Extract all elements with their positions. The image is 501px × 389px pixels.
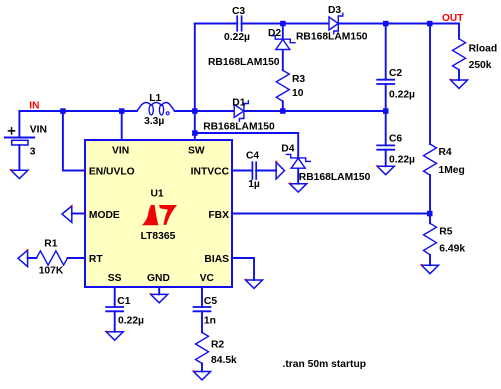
ground at BIAS bbox=[245, 279, 263, 289]
svg-text:.tran 50m startup: .tran 50m startup bbox=[283, 359, 367, 370]
junction node D2 top bbox=[280, 21, 286, 27]
wire BIAS branch bbox=[232, 258, 254, 280]
svg-text:R5: R5 bbox=[439, 227, 452, 238]
wire SS to C1 bbox=[114, 287, 116, 332]
svg-text:6.49k: 6.49k bbox=[439, 244, 465, 255]
inductor L1 bbox=[137, 102, 175, 115]
svg-text:L1: L1 bbox=[149, 93, 161, 104]
junction node FBX/R4/R5 bbox=[427, 211, 433, 217]
svg-text:R2: R2 bbox=[211, 340, 224, 351]
junction node VIN pin bbox=[119, 108, 125, 114]
svg-text:0.22µ: 0.22µ bbox=[389, 155, 415, 166]
IC U1 LT8365 body bbox=[85, 140, 232, 287]
wire C2 column bbox=[385, 24, 387, 167]
wire VIN source leads bbox=[18, 111, 20, 170]
svg-text:107K: 107K bbox=[39, 266, 64, 277]
svg-text:OUT: OUT bbox=[442, 13, 464, 24]
wire SW column bbox=[194, 24, 196, 141]
svg-text:C2: C2 bbox=[389, 68, 402, 79]
wire R5 leads bbox=[429, 214, 431, 266]
wire EN/UVLO branch bbox=[63, 111, 85, 171]
wire top rail bbox=[195, 24, 459, 39]
svg-text:RB168LAM150: RB168LAM150 bbox=[299, 172, 371, 183]
svg-text:R1: R1 bbox=[44, 239, 57, 250]
junction node IN/EN bbox=[60, 108, 65, 114]
svg-text:C5: C5 bbox=[204, 296, 217, 307]
svg-text:MODE: MODE bbox=[89, 210, 120, 221]
capacitor C4 bbox=[252, 162, 256, 179]
resistor R4 bbox=[424, 144, 437, 175]
svg-text:RB168LAM150: RB168LAM150 bbox=[296, 31, 368, 42]
svg-text:D1: D1 bbox=[232, 98, 245, 109]
wire VC C5 R2 column bbox=[201, 287, 203, 372]
wire MODE pin bbox=[72, 213, 85, 215]
resistor Rload bbox=[453, 39, 466, 70]
ground at C6 bbox=[377, 165, 395, 175]
wire D4 branch bbox=[195, 133, 298, 158]
svg-text:IN: IN bbox=[29, 101, 39, 112]
voltage source VIN battery bbox=[5, 128, 34, 145]
schottky diode D3 bbox=[329, 13, 343, 33]
ground at C1 bbox=[106, 331, 124, 341]
svg-text:C4: C4 bbox=[246, 151, 259, 162]
svg-text:10: 10 bbox=[292, 88, 304, 99]
svg-text:C1: C1 bbox=[117, 296, 130, 307]
ground at R5 bbox=[421, 264, 439, 274]
capacitor C6 bbox=[377, 145, 394, 149]
wire D4 to ground bbox=[297, 168, 299, 184]
svg-text:FBX: FBX bbox=[208, 210, 229, 221]
svg-text:INTVCC: INTVCC bbox=[191, 166, 230, 177]
wire IN rail bbox=[19, 110, 385, 112]
net flag arrow at R1 bbox=[18, 249, 28, 266]
ground at VIN bbox=[10, 169, 28, 179]
junction node C2 top bbox=[383, 21, 389, 27]
junction node R3 bottom bbox=[280, 108, 286, 114]
capacitor C5 bbox=[194, 307, 211, 311]
schottky diode D1 bbox=[234, 101, 248, 121]
svg-text:D4: D4 bbox=[281, 144, 294, 155]
resistor R3 bbox=[276, 70, 289, 101]
junction node SW rail bbox=[192, 108, 198, 114]
wire RT to R1 bbox=[28, 257, 85, 259]
ground at R2 bbox=[193, 370, 211, 380]
LT logo bbox=[142, 205, 177, 225]
svg-text:SS: SS bbox=[108, 273, 122, 284]
svg-text:1µ: 1µ bbox=[248, 179, 260, 190]
svg-text:VIN: VIN bbox=[112, 146, 129, 157]
wire Rload leads bbox=[458, 70, 460, 80]
svg-text:3.3µ: 3.3µ bbox=[144, 116, 164, 127]
svg-text:VIN: VIN bbox=[30, 125, 47, 136]
svg-text:D2: D2 bbox=[268, 28, 281, 39]
net flag arrow at C4 bbox=[276, 161, 285, 179]
svg-text:0.22µ: 0.22µ bbox=[118, 316, 144, 327]
svg-text:C3: C3 bbox=[232, 6, 245, 17]
resistor R5 bbox=[424, 223, 437, 255]
schottky diode D2 bbox=[271, 36, 295, 50]
svg-text:EN/UVLO: EN/UVLO bbox=[89, 166, 135, 177]
svg-text:RB168LAM150: RB168LAM150 bbox=[203, 122, 275, 133]
junction node C2/C6 bbox=[383, 108, 389, 114]
wire VIN pin bbox=[121, 111, 123, 140]
svg-text:0.22µ: 0.22µ bbox=[389, 90, 415, 101]
svg-text:VC: VC bbox=[200, 273, 215, 284]
wire GND pin bbox=[158, 287, 160, 294]
capacitor C2 bbox=[377, 80, 394, 84]
wire FBX rail bbox=[232, 213, 430, 215]
svg-text:3: 3 bbox=[30, 147, 36, 158]
svg-text:D3: D3 bbox=[328, 5, 341, 16]
ground at Rload bbox=[450, 79, 468, 89]
svg-text:84.5k: 84.5k bbox=[211, 355, 237, 366]
svg-text:RT: RT bbox=[89, 254, 103, 265]
wire R4 column bbox=[429, 24, 431, 214]
resistor R1 bbox=[37, 251, 68, 265]
svg-text:R4: R4 bbox=[439, 147, 452, 158]
svg-text:SW: SW bbox=[188, 146, 205, 157]
svg-text:1Meg: 1Meg bbox=[439, 165, 465, 176]
svg-text:250k: 250k bbox=[469, 60, 492, 71]
junction node OUT/R4 bbox=[427, 21, 433, 27]
svg-text:BIAS: BIAS bbox=[204, 254, 229, 265]
wire D2/R3 column bbox=[282, 24, 284, 112]
svg-text:1n: 1n bbox=[204, 316, 216, 327]
capacitor C1 bbox=[106, 307, 123, 311]
svg-text:GND: GND bbox=[147, 273, 170, 284]
wire INTVCC to C4 bbox=[232, 170, 276, 172]
resistor R2 bbox=[196, 332, 209, 363]
capacitor C3 bbox=[237, 16, 241, 31]
svg-text:LT8365: LT8365 bbox=[141, 231, 176, 242]
svg-text:R3: R3 bbox=[292, 74, 305, 85]
ground at D4 bbox=[289, 183, 307, 193]
svg-text:U1: U1 bbox=[151, 189, 164, 200]
junction node SW/D4 bbox=[192, 130, 198, 136]
svg-text:C6: C6 bbox=[389, 134, 402, 145]
svg-text:Rload: Rload bbox=[469, 43, 498, 54]
ground at GND pin bbox=[150, 293, 168, 303]
net flag arrow at MODE bbox=[62, 205, 72, 222]
schottky diode D4 bbox=[286, 154, 310, 168]
svg-text:RB168LAM150: RB168LAM150 bbox=[208, 57, 280, 68]
svg-text:0.22µ: 0.22µ bbox=[224, 32, 250, 43]
